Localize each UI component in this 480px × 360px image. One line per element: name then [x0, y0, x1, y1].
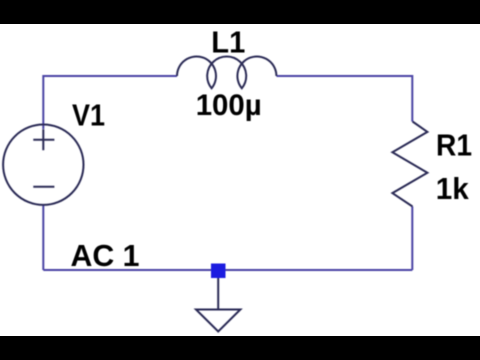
- voltage source V1: [3, 125, 83, 205]
- resistor R1: [392, 122, 427, 207]
- wire bottom net: [43, 269, 412, 271]
- wire R1 bottom lead: [411, 207, 413, 271]
- svg-text:1k: 1k: [436, 171, 470, 206]
- svg-text:L1: L1: [211, 24, 245, 59]
- wire L1 to R1: [277, 76, 413, 122]
- inductor L1: [177, 56, 276, 88]
- wire V1 bottom lead: [42, 204, 44, 270]
- svg-text:R1: R1: [436, 128, 472, 163]
- svg-text:V1: V1: [72, 97, 105, 132]
- wire V1 top to L1: [43, 76, 177, 129]
- svg-text:100µ: 100µ: [196, 89, 262, 122]
- node junction: [211, 264, 226, 279]
- svg-text:AC 1: AC 1: [71, 238, 140, 273]
- ground: [196, 278, 240, 332]
